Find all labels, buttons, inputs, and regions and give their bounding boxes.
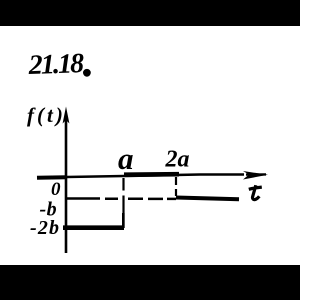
svg-text:2a: 2a — [165, 147, 190, 173]
svg-text:f(t): f(t) — [27, 103, 66, 127]
vertical axis — [65, 118, 68, 253]
dashed vertical riser at t=2a — [175, 177, 177, 196]
horizontal axis arrowhead — [243, 171, 268, 180]
svg-text:21.18: 21.18 — [27, 48, 84, 81]
thick left end of t-axis — [37, 175, 67, 180]
problem number trailing period — [83, 69, 91, 77]
dashed vertical riser at t=a — [122, 178, 124, 228]
horizontal axis arrow tip stroke — [246, 173, 266, 176]
vertical axis arrowhead — [63, 107, 70, 124]
segment f=-b from 2a rightward — [176, 198, 239, 200]
bottom black bar — [0, 265, 300, 300]
axis label t — [249, 185, 262, 199]
segment f=0 from a to 2a (thick, on axis) — [124, 172, 179, 177]
top black bar — [0, 0, 300, 26]
svg-text:a: a — [118, 141, 134, 176]
svg-text:-2b: -2b — [30, 217, 60, 239]
horizontal axis (t-axis) — [38, 175, 244, 178]
segment f=-2b from 0 to a — [63, 225, 124, 230]
svg-text:0: 0 — [51, 179, 61, 200]
step stub at right end of -2b segment — [122, 213, 125, 228]
dashed guide line at level -b — [67, 197, 176, 200]
